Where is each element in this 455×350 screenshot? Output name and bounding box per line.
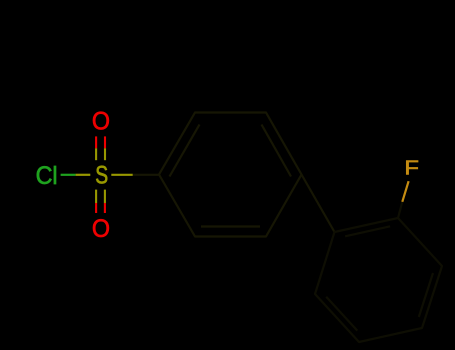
bond S-C1 ring1 (carbon half) [133,174,159,176]
bond S-C1 ring1 (olive half) [111,174,133,176]
ring 1 inner double bond line (left-top edge) [170,125,200,177]
benzene ring 2 outline [315,218,442,342]
svg-text:S: S [95,161,108,189]
benzene ring 1 outline [159,113,302,237]
svg-text:Cl: Cl [36,162,58,190]
svg-text:F: F [404,157,419,180]
bond Cl-S (green half) [61,174,76,176]
double bond S=O bottom, left line (olive half) [95,190,97,203]
svg-text:O: O [92,215,110,243]
ring 1 inner double bond line (right-top edge) [262,125,292,177]
svg-text:O: O [92,108,110,136]
double bond S=O top, right line (red half) [104,136,106,148]
ring 1 inner double bond line (bottom edge) [201,225,260,227]
ring 2 inner double bond line (top edge A-B) [345,226,390,236]
bond ring1-ring2 (biphenyl link) [302,175,335,233]
double bond S=O top, left line (red half) [95,136,97,148]
bond C(ring2)-F (carbon half) [398,202,402,218]
bond C(ring2)-F (fluorine half) [402,181,408,202]
double bond S=O bottom, left line (red half) [95,203,97,213]
ring 2 inner double bond line (edge E-G) [326,297,357,331]
double bond S=O top, left line (olive half) [95,148,97,160]
double bond S=O bottom, right line (olive half) [104,190,106,203]
bond Cl-S (sulfur half) [76,174,91,176]
double bond S=O top, right line (olive half) [104,148,106,160]
double bond S=O bottom, right line (red half) [104,203,106,213]
ring 2 inner double bond line (edge C-D) [419,273,433,317]
